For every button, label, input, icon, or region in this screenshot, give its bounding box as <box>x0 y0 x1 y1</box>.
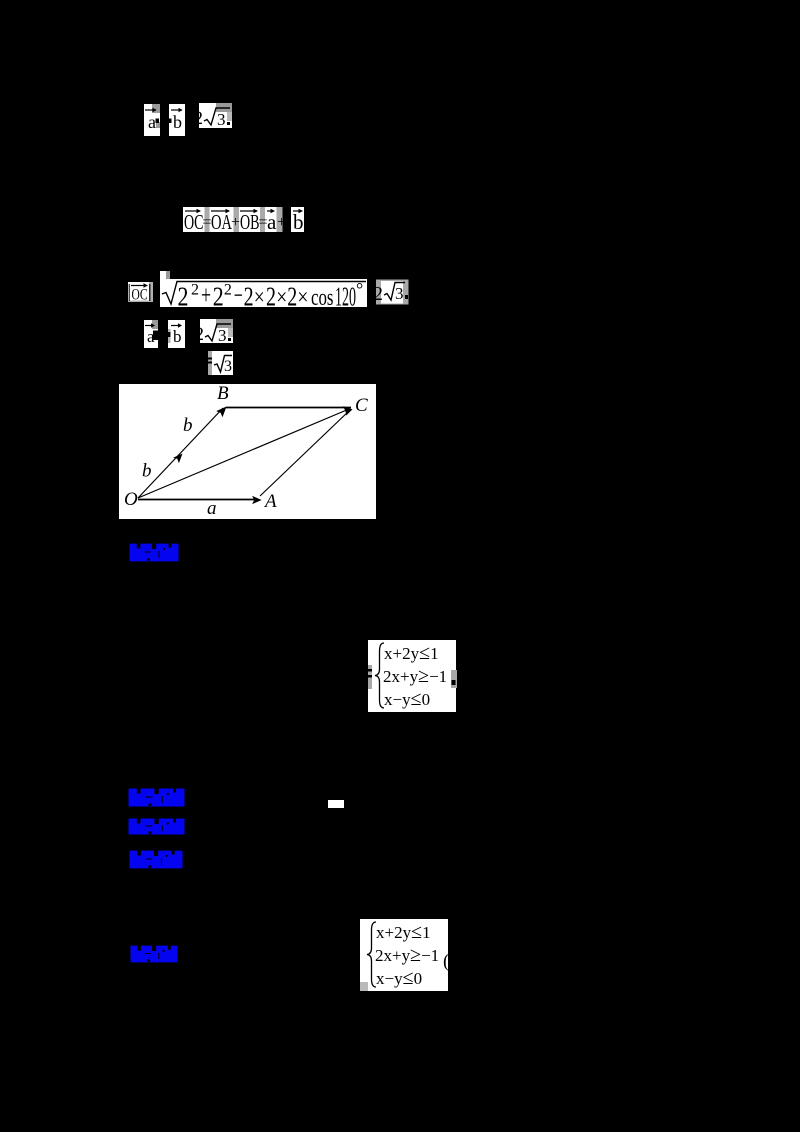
svg-text:−: − <box>234 280 243 308</box>
svg-text:OB: OB <box>240 210 260 233</box>
svg-text:3: 3 <box>224 358 232 375</box>
svg-text:(: ( <box>443 951 449 972</box>
svg-text:x−y≤0: x−y≤0 <box>376 967 422 989</box>
svg-text:x+2y≤1: x+2y≤1 <box>384 642 439 664</box>
svg-text:2: 2 <box>194 108 204 129</box>
svg-text:OA: OA <box>211 210 233 233</box>
svg-text:=: = <box>259 214 268 231</box>
svg-text:B: B <box>217 384 229 404</box>
svg-text:3: 3 <box>218 326 227 345</box>
svg-text:3: 3 <box>395 284 404 303</box>
svg-text:b: b <box>173 327 182 346</box>
svg-text:×: × <box>276 285 287 309</box>
svg-text:cos: cos <box>311 285 334 308</box>
svg-text:+: + <box>201 280 211 308</box>
svg-text:2: 2 <box>287 282 297 309</box>
svg-text:2: 2 <box>373 283 383 305</box>
svg-text:2: 2 <box>244 282 254 309</box>
svg-text:2: 2 <box>178 282 189 309</box>
svg-text:C: C <box>355 395 368 416</box>
svg-text:a: a <box>207 498 217 519</box>
svg-text:°: ° <box>356 279 363 299</box>
svg-text:×: × <box>297 285 308 309</box>
svg-text:+: + <box>231 214 240 231</box>
svg-text:2: 2 <box>213 282 224 309</box>
svg-text:2x+y≥−1: 2x+y≥−1 <box>383 665 447 687</box>
svg-text:3: 3 <box>217 110 226 129</box>
svg-text:x+2y≤1: x+2y≤1 <box>376 921 431 943</box>
svg-text:OC: OC <box>132 287 148 304</box>
svg-text:120: 120 <box>335 282 356 309</box>
svg-text:+: + <box>277 214 286 231</box>
svg-text:b: b <box>142 461 152 482</box>
svg-text:=: = <box>203 214 212 231</box>
svg-text:2: 2 <box>191 282 199 299</box>
svg-text:2: 2 <box>224 282 232 299</box>
svg-text:2: 2 <box>195 324 205 345</box>
svg-text:b: b <box>183 415 193 436</box>
svg-text:a: a <box>148 112 156 132</box>
svg-text:2x+y≥−1: 2x+y≥−1 <box>375 944 439 966</box>
svg-text:a: a <box>267 210 277 233</box>
svg-text:a: a <box>147 327 155 346</box>
svg-text:b: b <box>173 112 182 132</box>
svg-text:b: b <box>293 210 304 233</box>
svg-text:A: A <box>263 491 277 512</box>
svg-text:O: O <box>124 489 138 510</box>
svg-text:2: 2 <box>266 282 276 309</box>
svg-text:x−y≤0: x−y≤0 <box>384 688 430 710</box>
svg-text:OC: OC <box>184 210 204 233</box>
svg-text:×: × <box>254 285 265 309</box>
